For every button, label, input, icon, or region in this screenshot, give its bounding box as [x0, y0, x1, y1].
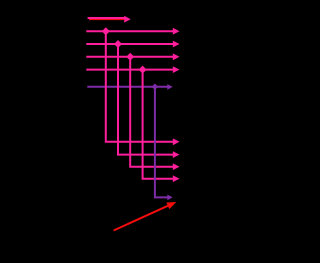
wire: purple horizontal arrow row 5	[87, 86, 168, 88]
wire: top legend arrow (pink)	[88, 17, 126, 19]
wire: pink horizontal arrow row 1	[86, 30, 173, 32]
node: diamond marker row 1	[102, 27, 110, 35]
wire: pink horizontal arrow row 2	[86, 43, 173, 45]
wire: L-path from row-1 diamond down to bottom arrow 1	[106, 31, 173, 142]
node: diamond marker row 4	[139, 66, 147, 74]
wire: pink horizontal arrow row 4	[86, 69, 173, 71]
wire: purple L-path down to bottom purple arrow	[155, 87, 168, 198]
wire: L-path from row-3 diamond down to bottom arrow 3	[130, 57, 173, 167]
node: diamond marker row 3	[126, 53, 134, 61]
wire: pink horizontal arrow row 3	[86, 56, 173, 58]
wire: L-path from row-2 diamond down to bottom arrow 2	[118, 44, 173, 155]
node: red diagonal arrowhead	[166, 202, 176, 209]
node: purple diamond marker row 5	[152, 84, 158, 90]
node: diamond marker row 2	[114, 40, 122, 48]
wire: L-path from row-4 diamond down to bottom arrow 4	[143, 70, 174, 179]
wire: red underline of top legend arrow	[89, 18, 124, 20]
wire: red diagonal arrow body	[114, 206, 168, 231]
